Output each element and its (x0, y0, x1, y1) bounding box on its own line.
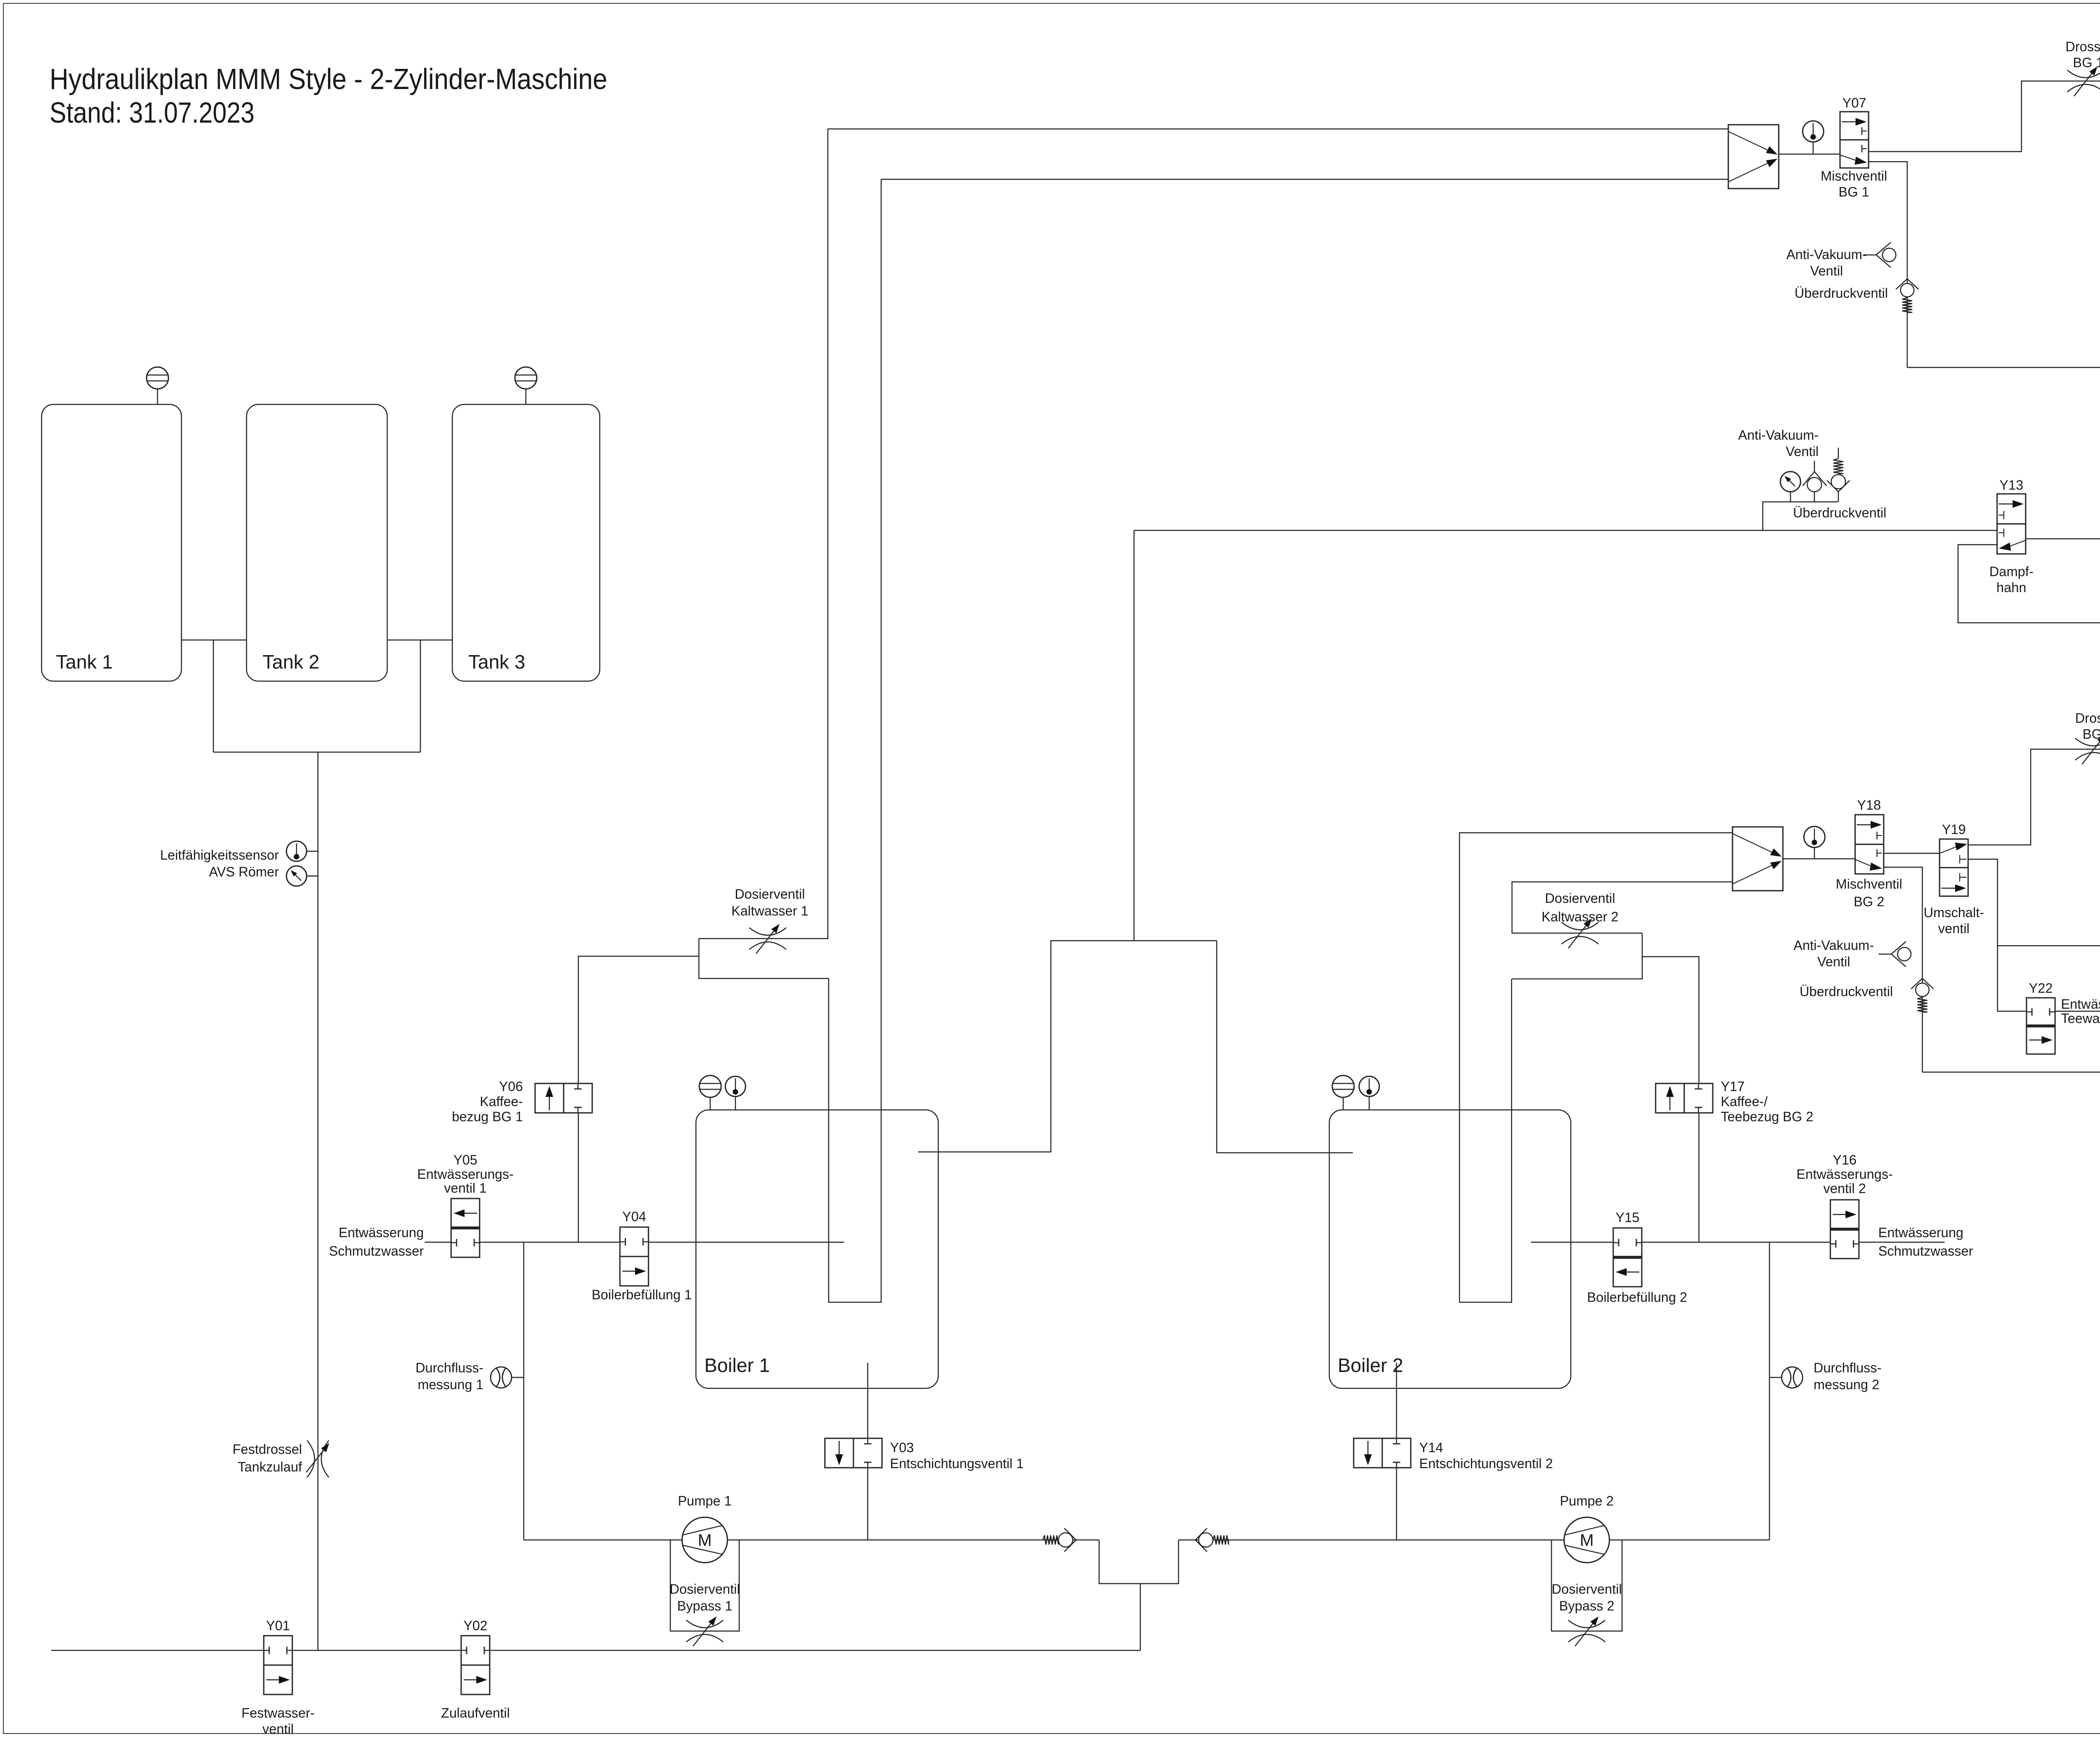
wire Mischer-Ruecklauf BG2 (1922, 1072, 2100, 1073)
svg-text:hahn: hahn (1996, 580, 2026, 595)
svg-text:Leitfähigkeitssensor: Leitfähigkeitssensor (160, 847, 279, 863)
throttle Dosierventil Kaltwasser 2 (1562, 918, 1599, 948)
wire Y19 to tee line (1968, 859, 2026, 1011)
label Y04 (622, 1209, 646, 1224)
valve Y04 Boilerbefuellung 1 (620, 1227, 648, 1286)
label Dampfhahn (1990, 564, 2034, 595)
svg-text:Y01: Y01 (266, 1618, 290, 1633)
svg-text:Mischventil: Mischventil (1836, 876, 1902, 892)
wire tank connector drop 2 (420, 640, 421, 752)
wire Y17 branch (1642, 957, 1699, 1242)
label Boiler 2 (1338, 1354, 1403, 1376)
svg-text:Entwässerungs-: Entwässerungs- (417, 1167, 513, 1182)
wire Y14 to pump line (1396, 1468, 1397, 1540)
svg-text:Schmutzwasser: Schmutzwasser (1878, 1243, 1973, 1259)
thermometer boiler 2 (1359, 1076, 1379, 1110)
wire Y22 out (2055, 1011, 2100, 1012)
label Y19 (1942, 822, 1966, 837)
svg-text:Durchfluss-: Durchfluss- (1814, 1360, 1882, 1375)
wire tank collector bus (213, 752, 420, 753)
steam relief valve (1827, 448, 1850, 502)
wire steam riser (1134, 530, 1135, 941)
svg-text:Y03: Y03 (890, 1440, 914, 1455)
svg-text:Kaffee-: Kaffee- (480, 1094, 523, 1109)
label Y22 (2029, 981, 2053, 996)
valve Y16 Entwaesserungsventil 2 (1830, 1200, 1859, 1259)
svg-text:Y06: Y06 (499, 1079, 523, 1094)
label Anti-Vakuum-Ventil BG2 (1793, 938, 1874, 969)
label Y03 (890, 1440, 1024, 1471)
svg-text:Y14: Y14 (1419, 1440, 1443, 1455)
check valve pump2 (1195, 1528, 1228, 1552)
valve Y06 Kaffeebezug BG1 (535, 1083, 592, 1113)
label Mischventil BG 2 (1836, 876, 1902, 909)
check valve pump1 (1043, 1528, 1076, 1552)
gauge after mix1 (1803, 121, 1824, 154)
svg-text:messung 2: messung 2 (1814, 1377, 1879, 1392)
wire supply riser to check valves (1140, 1584, 1141, 1650)
svg-text:Teebezug BG 2: Teebezug BG 2 (1721, 1109, 1814, 1124)
svg-text:BG 1: BG 1 (1839, 184, 1869, 199)
svg-text:Entwässerungs-: Entwässerungs- (1796, 1167, 1893, 1182)
boiler 2 vessel (1329, 1110, 1571, 1388)
wire boiler2 bottom outlet (1396, 1363, 1397, 1438)
svg-text:Y19: Y19 (1942, 822, 1966, 837)
relief valve BG1 (1896, 279, 1919, 312)
wire check valve dip (1099, 1540, 1179, 1584)
wire tank feed vertical (318, 752, 319, 1650)
label Leitfaehigkeitssensor (160, 847, 279, 879)
wire boiler1 bottom outlet (867, 1363, 869, 1438)
svg-text:Entwässerung: Entwässerung (339, 1225, 424, 1240)
throttle Drossel BG 1 (2067, 66, 2100, 96)
label Drossel BG 2 (2075, 711, 2100, 742)
svg-text:bezug BG 1: bezug BG 1 (452, 1109, 523, 1124)
svg-text:Bypass 2: Bypass 2 (1559, 1598, 1614, 1613)
svg-text:Kaltwasser 1: Kaltwasser 1 (731, 903, 808, 918)
svg-text:messung 1: messung 1 (417, 1377, 483, 1392)
valve Y22 Entwaesserung Teewasser (2026, 998, 2055, 1054)
wire kaltwasser2 jog (1512, 933, 1642, 979)
svg-text:Tank 3: Tank 3 (468, 651, 525, 673)
label Boilerbefuellung 1 (592, 1287, 692, 1302)
svg-text:Y02: Y02 (464, 1618, 488, 1633)
svg-text:Tankzulauf: Tankzulauf (238, 1459, 302, 1474)
svg-text:Dosierventil: Dosierventil (735, 887, 805, 902)
wire boiler2 dip tube (1459, 833, 1732, 1302)
steam anti-vacuum valve (1803, 461, 1827, 502)
flow meter 1 (491, 1367, 524, 1388)
valve Y05 Entwaesserungsventil 1 (451, 1199, 480, 1257)
svg-text:BG 2: BG 2 (2083, 727, 2100, 742)
label Y14 (1419, 1440, 1553, 1471)
svg-text:Tank 2: Tank 2 (262, 651, 320, 673)
relief valve BG2 (1911, 978, 1934, 1012)
svg-text:Überdruckventil: Überdruckventil (1793, 505, 1886, 520)
label Zulaufventil (441, 1705, 510, 1721)
svg-text:M: M (1580, 1531, 1593, 1550)
label Dosierventil Bypass 1 (669, 1582, 740, 1613)
wire mix2 to Y18 (1782, 858, 1855, 860)
svg-text:Festdrossel: Festdrossel (233, 1442, 302, 1457)
wire steam trio riser (1763, 502, 1838, 530)
label Ueberdruckventil BG2 (1800, 984, 1893, 999)
valve Y07 Mischventil BG1 (1840, 112, 1869, 168)
anti-vacuum valve BG1 (1864, 242, 1896, 268)
wire pump2 riser (1769, 1242, 1770, 1540)
level sensor tank 1 (147, 367, 168, 404)
svg-text:AVS Römer: AVS Römer (209, 864, 279, 879)
label Boiler 1 (704, 1354, 770, 1376)
tank T2 label (262, 651, 320, 673)
label Y05 (417, 1152, 513, 1196)
label Y16 (1796, 1152, 1893, 1196)
conductivity sensor thermometer (286, 841, 318, 861)
svg-text:ventil: ventil (1938, 921, 1970, 936)
conductivity sensor gauge (286, 866, 318, 886)
svg-text:Teewasser: Teewasser (2061, 1011, 2100, 1026)
svg-text:Stand: 31.07.2023: Stand: 31.07.2023 (50, 96, 255, 129)
svg-text:Schmutzwasser: Schmutzwasser (329, 1243, 424, 1259)
wire pump1 line (524, 1540, 1099, 1541)
svg-text:Y15: Y15 (1616, 1210, 1640, 1225)
label Y18 (1857, 797, 1881, 813)
label Y02 (464, 1618, 488, 1633)
svg-text:ventil 1: ventil 1 (444, 1180, 486, 1196)
svg-text:Pumpe 2: Pumpe 2 (1560, 1493, 1614, 1508)
wire tank2-tank3 connector (387, 640, 452, 641)
label Entwaesserung Schmutzwasser right (1878, 1225, 1973, 1259)
label Dosierventil Bypass 2 (1551, 1582, 1622, 1613)
svg-text:ventil: ventil (262, 1721, 294, 1736)
mixing valve BG1 (1728, 125, 1779, 189)
svg-text:Dosierventil: Dosierventil (669, 1582, 740, 1597)
svg-text:Entschichtungsventil 1: Entschichtungsventil 1 (890, 1456, 1024, 1471)
mixing valve BG2 (1732, 827, 1783, 891)
svg-text:BG 2: BG 2 (1854, 894, 1885, 909)
label Mischventil BG 1 (1821, 168, 1887, 199)
valve Y17 Kaffee-Teebezug BG2 (1656, 1083, 1713, 1113)
wire bypass2 loop (1551, 1540, 1622, 1631)
svg-text:Ventil: Ventil (1786, 444, 1819, 459)
label Entwaesserung Schmutzwasser left (329, 1225, 424, 1259)
title text (50, 63, 607, 129)
wire pump2 line (1179, 1540, 1769, 1541)
svg-text:Ventil: Ventil (1810, 263, 1843, 278)
svg-text:Anti-Vakuum-: Anti-Vakuum- (1793, 938, 1874, 953)
level sensor boiler 2 (1332, 1075, 1354, 1110)
label Dosierventil Kaltwasser 1 (731, 887, 808, 918)
valve Y01 Festwasserventil (264, 1636, 292, 1694)
svg-text:Entwässerung: Entwässerung (1878, 1225, 1963, 1240)
tank T1 label (56, 651, 113, 673)
thermometer boiler 1 (725, 1076, 745, 1110)
gauge after mix2 (1804, 826, 1825, 859)
label Anti-Vakuum-Ventil steam (1738, 428, 1819, 459)
svg-text:Drossel: Drossel (2066, 39, 2100, 54)
wire kaltwasser2 throttle line (1512, 882, 1732, 933)
svg-text:Mischventil: Mischventil (1821, 168, 1887, 184)
svg-text:Boiler 1: Boiler 1 (704, 1354, 770, 1376)
wire top cold line BG1 (828, 129, 1728, 130)
label Y15 (1616, 1210, 1640, 1225)
svg-text:Entwässerung: Entwässerung (2061, 997, 2100, 1012)
valve Y13 Dampfhahn (1997, 494, 2026, 554)
svg-text:Y04: Y04 (622, 1209, 646, 1224)
svg-text:Y22: Y22 (2029, 981, 2053, 996)
valve Y14 Entschichtungsventil 2 (1354, 1438, 1411, 1468)
label Festdrossel Tankzulauf (233, 1442, 302, 1474)
label Entwaesserung Teewasser (2061, 997, 2100, 1026)
svg-text:Festwasser-: Festwasser- (241, 1705, 315, 1721)
svg-text:Dosierventil: Dosierventil (1545, 891, 1615, 906)
wire kaltwasser1 throttle line (699, 129, 828, 939)
label Umschaltventil (1924, 905, 1984, 936)
wire Y07 to drossel BG1 (1869, 81, 2100, 152)
label Y01 (266, 1618, 290, 1633)
tank T1 (42, 404, 181, 681)
wire Teebezug line (1998, 945, 2100, 947)
svg-text:Tank 1: Tank 1 (56, 651, 113, 673)
svg-text:Ventil: Ventil (1817, 954, 1850, 969)
svg-text:Dampf-: Dampf- (1990, 564, 2034, 579)
label Drossel BG 1 (2066, 39, 2100, 70)
wire boiler1 steam stub (918, 941, 1217, 1152)
wire steam line (1134, 530, 1997, 531)
pump P2 (1564, 1517, 1609, 1563)
svg-text:Y07: Y07 (1843, 95, 1866, 110)
valve Y02 Zulaufventil (461, 1636, 490, 1694)
wire Y06 branch (578, 956, 699, 1242)
label Durchflussmessung 2 (1814, 1360, 1882, 1392)
svg-text:Entschichtungsventil 2: Entschichtungsventil 2 (1419, 1456, 1553, 1471)
svg-text:Kaffee-/: Kaffee-/ (1721, 1094, 1768, 1109)
valve Y19 Umschaltventil (1940, 839, 1968, 896)
svg-text:Anti-Vakuum-: Anti-Vakuum- (1786, 247, 1866, 262)
wire kaltwasser1 jog (699, 939, 829, 978)
level sensor boiler 1 (699, 1075, 721, 1110)
wire Y03 to pump line (867, 1468, 869, 1540)
label Anti-Vakuum-Ventil BG1 (1786, 247, 1866, 278)
wire pump1 riser (523, 1242, 525, 1540)
svg-text:Drossel: Drossel (2075, 711, 2100, 726)
svg-text:Zulaufventil: Zulaufventil (441, 1705, 510, 1721)
svg-text:Überdruckventil: Überdruckventil (1795, 286, 1888, 301)
tank T3 label (468, 651, 525, 673)
wire mix1 to Y07 (1779, 154, 1840, 155)
svg-text:Dosierventil: Dosierventil (1551, 1582, 1622, 1597)
wire boiler1 dip tube (829, 179, 881, 1302)
label Y17 Kaffee-Teebezug BG2 (1721, 1079, 1814, 1124)
wire tank connector drop 1 (213, 640, 214, 752)
throttle Festdrossel Tankzulauf (306, 1440, 329, 1477)
wire Y19 to drossel BG2 (1968, 749, 2100, 845)
boiler 1 vessel (696, 1110, 938, 1388)
svg-text:ventil 2: ventil 2 (1823, 1181, 1866, 1196)
wire Y13 to Dampfbezug (2026, 473, 2100, 539)
anti-vacuum valve BG2 (1879, 942, 1911, 967)
svg-text:Y13: Y13 (2000, 477, 2024, 493)
svg-text:Umschalt-: Umschalt- (1924, 905, 1984, 920)
svg-text:M: M (698, 1531, 711, 1550)
wire Mischer-Ruecklauf BG1 (1907, 367, 2100, 368)
steam gauge (1780, 472, 1801, 502)
label Ueberdruckventil BG1 (1795, 286, 1888, 301)
label Ueberdruckventil steam (1793, 505, 1886, 520)
label Boilerbefuellung 2 (1587, 1290, 1687, 1305)
throttle Dosierventil Kaltwasser 1 (749, 924, 786, 954)
wire Y13 return (1958, 545, 2100, 623)
label Pumpe 1 (678, 1493, 732, 1508)
throttle Dosierventil Bypass 1 (686, 1616, 723, 1646)
svg-text:Y18: Y18 (1857, 797, 1881, 813)
svg-text:Kaltwasser 2: Kaltwasser 2 (1541, 909, 1618, 924)
pump P1 (682, 1517, 727, 1563)
svg-text:Hydraulikplan MMM Style - 2-Zy: Hydraulikplan MMM Style - 2-Zylinder-Mas… (50, 63, 607, 95)
label Y07 (1843, 95, 1866, 110)
valve Y15 Boilerbefuellung 2 (1613, 1228, 1642, 1287)
svg-text:Boilerbefüllung 2: Boilerbefüllung 2 (1587, 1290, 1687, 1305)
svg-text:Durchfluss-: Durchfluss- (415, 1360, 483, 1375)
tank T2 (247, 404, 387, 681)
label Pumpe 2 (1560, 1493, 1614, 1508)
wire boiler2 steam stub (1217, 941, 1353, 1153)
wire top hot line BG1 (881, 179, 1728, 180)
svg-text:Boilerbefüllung 1: Boilerbefüllung 1 (592, 1287, 692, 1302)
label Y06 Kaffeebezug BG1 (452, 1079, 523, 1124)
svg-text:Y16: Y16 (1833, 1152, 1857, 1167)
label Y13 (2000, 477, 2024, 493)
label Durchflussmessung 1 (415, 1360, 483, 1392)
svg-text:Überdruckventil: Überdruckventil (1800, 984, 1893, 999)
wire main supply line (51, 1650, 1140, 1651)
svg-text:BG 1: BG 1 (2073, 55, 2100, 70)
svg-text:Anti-Vakuum-: Anti-Vakuum- (1738, 428, 1819, 443)
wire boiler1 drain/fill line (425, 1242, 844, 1243)
flow meter 2 (1769, 1367, 1803, 1388)
svg-text:Y05: Y05 (454, 1152, 478, 1167)
level sensor tank 3 (515, 367, 537, 404)
label Dosierventil Kaltwasser 2 (1541, 891, 1618, 924)
wire Y07 return down (1869, 162, 1907, 367)
svg-text:Bypass 1: Bypass 1 (677, 1598, 732, 1613)
wire boiler2 drain/fill line (1531, 1242, 1945, 1243)
tank T3 (452, 404, 600, 681)
wire Y18 return down (1884, 867, 1922, 1072)
valve Y18 Mischventil BG2 (1855, 815, 1884, 874)
wire bypass1 loop (670, 1540, 739, 1631)
wire tank1-tank2 connector (181, 640, 247, 641)
svg-text:Boiler 2: Boiler 2 (1338, 1354, 1403, 1376)
wire Y18 to Y19 (1884, 853, 1940, 854)
throttle Drossel BG 2 (2075, 734, 2100, 764)
label Festwasserventil (241, 1705, 315, 1736)
throttle Dosierventil Bypass 2 (1568, 1616, 1605, 1646)
svg-text:Pumpe 1: Pumpe 1 (678, 1493, 732, 1508)
svg-text:Y17: Y17 (1721, 1079, 1745, 1094)
valve Y03 Entschichtungsventil 1 (825, 1438, 882, 1468)
